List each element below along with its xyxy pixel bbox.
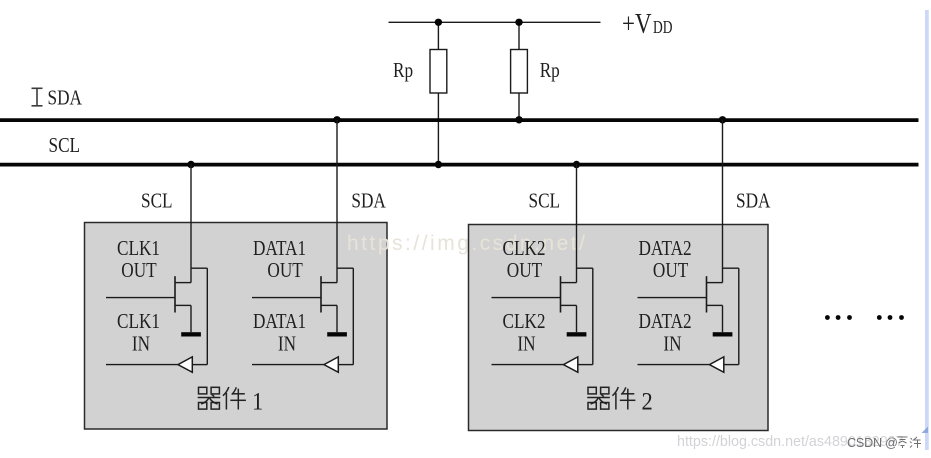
op-amp/input buffer U1 (triangle): [178, 357, 192, 372]
wire: source contact of Q2 (DATA1 output FET): [321, 304, 337, 306]
svg-text:DATA2: DATA2: [639, 310, 692, 333]
wire: IN line from U4: [638, 364, 710, 366]
wire: drain contact of Q4 (DATA2 output FET): [707, 282, 723, 284]
wire: source to ground of Q1 (CLK1 output FET): [190, 305, 192, 332]
watermark CSDN @零涂: [847, 436, 921, 450]
wire: branch to input buffer U1 (vertical): [206, 268, 208, 364]
label 器件1 (device 1 name): [198, 387, 264, 416]
wire: branch to input buffer U2 (vertical): [352, 268, 354, 364]
svg-text:IN: IN: [132, 333, 150, 356]
wire: +VDD rail: [389, 21, 601, 23]
wire: input buffer U2 feed: [338, 364, 353, 366]
wire: source to ground of Q2 (DATA1 output FET): [336, 305, 338, 332]
svg-text:SDA: SDA: [48, 87, 83, 110]
svg-text:CLK1: CLK1: [117, 310, 160, 333]
junction: Rp2 to SDA: [515, 116, 522, 123]
device box 2 (器件2): [469, 225, 769, 431]
svg-text:SDA: SDA: [351, 190, 386, 213]
ground (under Q3 (CLK2 output FET)): [567, 332, 587, 336]
transistor Q2 (DATA1 output FET): gate/channel bar: [320, 276, 322, 312]
svg-text:DATA1: DATA1: [253, 238, 306, 261]
wire: gate line of Q1 (CLK1 output FET): [106, 297, 175, 299]
wire: drain drop to Q3 (CLK2 output FET): [576, 165, 578, 283]
device box 1 (器件1): [85, 223, 388, 430]
svg-text:CLK1: CLK1: [117, 238, 160, 261]
svg-text:DD: DD: [653, 18, 672, 37]
junction: Rp1 to VDD rail: [435, 19, 442, 26]
svg-text:DATA2: DATA2: [639, 238, 692, 261]
svg-text:IN: IN: [663, 333, 681, 356]
wire: IN line from U2: [252, 364, 324, 366]
svg-text:IN: IN: [278, 333, 296, 356]
transistor Q1 (CLK1 output FET): gate/channel bar: [174, 276, 176, 312]
svg-text:+V: +V: [622, 8, 652, 40]
wire: Rp1 top lead: [437, 22, 439, 49]
junction: device1 SDA tap: [333, 116, 340, 123]
cursor mark (bottom right): [922, 427, 929, 434]
ground (under Q1 (CLK1 output FET)): [181, 332, 201, 336]
wire: drain drop to Q4 (DATA2 output FET): [722, 120, 724, 283]
transistor Q3 (CLK2 output FET): gate/channel bar: [560, 276, 562, 312]
wire: Rp2 bottom lead (to SDA): [518, 93, 520, 120]
wire: source to ground of Q4 (DATA2 output FET): [722, 305, 724, 332]
junction: device1 SCL tap: [187, 161, 194, 168]
wire: branch to input buffer U3 (horizontal): [577, 267, 593, 269]
wire: input buffer U4 feed: [724, 364, 739, 366]
svg-text:SCL: SCL: [529, 190, 561, 213]
svg-text:1: 1: [252, 388, 263, 415]
wire: source to ground of Q3 (CLK2 output FET): [576, 305, 578, 332]
svg-text:Rp: Rp: [540, 59, 560, 82]
wire: branch to input buffer U1 (horizontal): [191, 267, 207, 269]
scrollbar strip (right edge): [925, 10, 929, 450]
junction: device2 SCL tap: [573, 161, 580, 168]
op-amp/input buffer U4 (triangle): [710, 357, 724, 372]
ground (under Q4 (DATA2 output FET)): [713, 332, 733, 336]
wire: drain drop to Q2 (DATA1 output FET): [336, 120, 338, 283]
wire: branch to input buffer U2 (horizontal): [337, 267, 353, 269]
wire: IN line from U1: [106, 364, 178, 366]
svg-text:IN: IN: [517, 333, 535, 356]
wire: Rp2 top lead: [518, 22, 520, 49]
svg-text:SCL: SCL: [49, 134, 81, 157]
svg-text:OUT: OUT: [653, 259, 689, 282]
resistor Rp1: [430, 50, 447, 94]
junction: Rp2 to VDD rail: [515, 19, 522, 26]
wire: IN line from U3: [492, 364, 564, 366]
svg-text:SDA: SDA: [736, 190, 771, 213]
resistor Rp2: [511, 50, 528, 94]
junction: device2 SDA tap: [719, 116, 726, 123]
wire: source contact of Q4 (DATA2 output FET): [707, 304, 723, 306]
svg-text:2: 2: [642, 388, 653, 415]
wire: gate line of Q4 (DATA2 output FET): [638, 297, 707, 299]
transistor Q4 (DATA2 output FET): gate/channel bar: [706, 276, 708, 312]
text cursor I-beam: [32, 88, 43, 106]
wire: drain contact of Q1 (CLK1 output FET): [175, 282, 191, 284]
node: bus continuation ellipsis: [825, 315, 904, 320]
wire: input buffer U3 feed: [578, 364, 593, 366]
svg-text:OUT: OUT: [267, 259, 303, 282]
wire: Rp1 bottom lead (crosses SDA, to SCL): [437, 93, 439, 165]
wire: branch to input buffer U4 (vertical): [738, 268, 740, 364]
label 器件2 (device 2 name): [587, 387, 653, 416]
wire: drain contact of Q3 (CLK2 output FET): [561, 282, 577, 284]
wire: input buffer U1 feed: [192, 364, 207, 366]
wire: drain drop to Q1 (CLK1 output FET): [190, 165, 192, 283]
svg-text:SCL: SCL: [141, 190, 173, 213]
svg-text:https://img.csdn.net/: https://img.csdn.net/: [347, 232, 587, 255]
svg-text:OUT: OUT: [121, 259, 157, 282]
svg-text:OUT: OUT: [507, 259, 543, 282]
op-amp/input buffer U2 (triangle): [324, 357, 338, 372]
svg-text:Rp: Rp: [393, 59, 413, 82]
wire: drain contact of Q2 (DATA1 output FET): [321, 282, 337, 284]
wire: gate line of Q2 (DATA1 output FET): [252, 297, 321, 299]
svg-text:CLK2: CLK2: [503, 310, 546, 333]
wire: branch to input buffer U3 (vertical): [592, 268, 594, 364]
wire: branch to input buffer U4 (horizontal): [723, 267, 739, 269]
wire: source contact of Q1 (CLK1 output FET): [175, 304, 191, 306]
junction: Rp1 to SCL: [435, 161, 442, 168]
wire: gate line of Q3 (CLK2 output FET): [492, 297, 561, 299]
svg-text:CLK2: CLK2: [503, 238, 546, 261]
wire: SCL bus line: [0, 163, 919, 167]
svg-text:DATA1: DATA1: [253, 310, 306, 333]
ground (under Q2 (DATA1 output FET)): [327, 332, 347, 336]
op-amp/input buffer U3 (triangle): [564, 357, 578, 372]
wire: source contact of Q3 (CLK2 output FET): [561, 304, 577, 306]
svg-text:CSDN @: CSDN @: [847, 436, 898, 450]
wire: SDA bus line: [0, 118, 919, 122]
